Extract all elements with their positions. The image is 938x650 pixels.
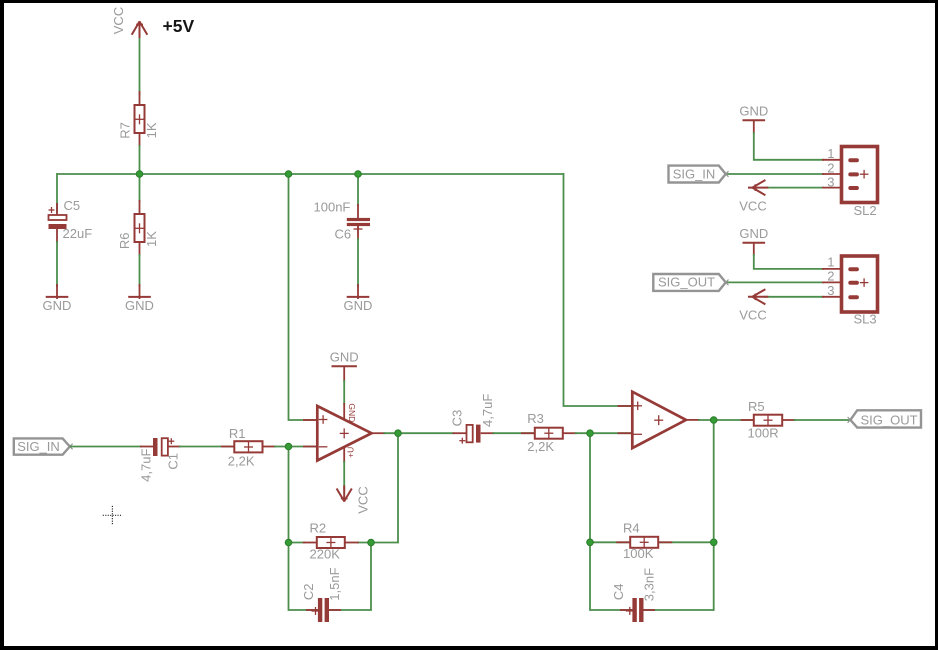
capacitor C1 4,7uF <box>139 438 181 482</box>
capacitor C2 1,5nF <box>301 567 342 622</box>
wire VCC symbol to R7 <box>139 37 141 95</box>
wire R5 to SIG_OUT flag <box>794 419 851 421</box>
wire rail to R6 <box>139 174 141 202</box>
svg-text:R3: R3 <box>527 411 544 426</box>
connector SL3 <box>822 255 878 327</box>
capacitor C5 22uF <box>49 198 93 243</box>
svg-text:3,3nF: 3,3nF <box>641 568 656 601</box>
capacitor C3 4,7uF <box>449 394 495 444</box>
ground symbol above op-amp1 <box>330 349 359 382</box>
resistor R3 2,2K <box>521 411 577 454</box>
svg-text:R7: R7 <box>117 122 132 139</box>
wire SIG_IN to C1 <box>70 446 142 448</box>
wire C4 right to output vertical <box>641 420 714 610</box>
wire rail to C6 <box>357 174 359 206</box>
net flag SIG_IN (input) <box>14 438 73 454</box>
wire GND to op-amp1 power pin <box>343 380 345 405</box>
power symbol VCC (up arrow) <box>111 7 147 38</box>
resistor R7 1K <box>117 91 159 147</box>
wire rail down to op-amp1 noninverting input <box>289 173 317 420</box>
resistor R4 100K <box>616 520 672 561</box>
wire R7 to rail junction <box>139 145 141 174</box>
ground symbol at C5 <box>43 284 72 313</box>
svg-text:100K: 100K <box>623 546 654 561</box>
svg-text:R4: R4 <box>623 520 640 535</box>
wire main VCC rail <box>57 173 564 175</box>
svg-text:+U: +U <box>346 447 356 458</box>
svg-text:VCC: VCC <box>111 7 126 34</box>
wire C1 to R1 <box>179 446 236 448</box>
svg-text:C2: C2 <box>301 583 316 600</box>
wire feedback left vertical to C2 row <box>289 447 321 611</box>
wire feedback2 left vertical to C4 row <box>590 433 634 610</box>
resistor R6 1K <box>117 200 159 256</box>
wire C3 to R3 <box>493 432 536 434</box>
resistor R5 100R <box>741 399 796 441</box>
svg-text:SL3: SL3 <box>854 312 877 327</box>
wire R2 right to op-amp1 output <box>357 433 398 542</box>
wire VCC arrow to SL2 pin 3 <box>764 187 824 189</box>
power symbol VCC at SL3 (left arrow) <box>739 289 768 322</box>
junction dot feedback1 right R2 <box>368 539 375 546</box>
connector SL2 <box>822 146 878 218</box>
wire R1 to op-amp1 inverting input <box>274 446 316 448</box>
svg-text:1: 1 <box>827 255 834 270</box>
svg-text:GND: GND <box>125 298 154 313</box>
svg-text:SIG_OUT: SIG_OUT <box>658 275 715 290</box>
svg-text:C6: C6 <box>335 226 352 241</box>
ground symbol above SL2 <box>739 104 768 135</box>
ground symbol at C6 <box>344 284 373 313</box>
junction dot rail/R7 <box>136 171 143 178</box>
svg-text:+5V: +5V <box>163 16 195 36</box>
cursor crosshair <box>103 506 122 525</box>
wire C6 to GND <box>357 238 359 287</box>
power symbol VCC at SL2 (left arrow) <box>739 180 768 213</box>
resistor R1 2,2K <box>221 426 276 468</box>
svg-text:GND: GND <box>347 403 357 422</box>
svg-text:100R: 100R <box>748 425 779 440</box>
svg-text:VCC: VCC <box>355 486 370 513</box>
capacitor C4 3,3nF <box>611 568 656 622</box>
op-amp U1A <box>303 403 386 463</box>
svg-text:1,5nF: 1,5nF <box>327 567 342 600</box>
junction dot feedback2 left R4 <box>587 539 594 546</box>
svg-text:GND: GND <box>330 349 359 364</box>
wire op-amp1 power pin to VCC <box>343 461 345 490</box>
svg-text:VCC: VCC <box>739 198 766 213</box>
svg-text:C1: C1 <box>166 453 181 470</box>
wire rail down to op-amp2 noninverting input <box>564 173 632 406</box>
svg-text:SIG_IN: SIG_IN <box>17 439 60 454</box>
svg-text:GND: GND <box>739 104 768 119</box>
svg-text:GND: GND <box>344 298 373 313</box>
ground symbol at R6 <box>125 284 154 313</box>
svg-text:SL2: SL2 <box>854 203 877 218</box>
wire C5 to GND <box>56 241 58 287</box>
junction dot feedback2 right R4 <box>710 539 717 546</box>
wire GND to SL2 pin 1 <box>754 132 824 160</box>
junction dot R1/op-amp1 inverting <box>285 443 292 450</box>
svg-text:C3: C3 <box>449 410 464 427</box>
svg-text:2,2K: 2,2K <box>527 439 554 454</box>
svg-text:R6: R6 <box>117 232 132 249</box>
wire R3 to op-amp2 inverting input <box>575 432 631 434</box>
svg-text:22uF: 22uF <box>63 226 93 241</box>
svg-text:GND: GND <box>43 298 72 313</box>
ground symbol above SL3 <box>739 226 768 256</box>
svg-text:SIG_OUT: SIG_OUT <box>860 412 917 427</box>
svg-text:220K: 220K <box>310 546 341 561</box>
junction dot op-amp2 output <box>710 417 717 424</box>
wire VCC arrow to SL3 pin 3 <box>764 296 824 298</box>
junction dot feedback1 left R2 <box>285 539 292 546</box>
svg-text:100nF: 100nF <box>314 199 351 214</box>
svg-text:R1: R1 <box>229 426 246 441</box>
power symbol VCC below op-amp1 (down arrow) <box>337 486 371 514</box>
net flag SIG_OUT (output) <box>848 410 921 427</box>
net flag SIG_IN (at SL2) <box>669 166 729 183</box>
op-amp U1B <box>618 392 701 448</box>
wire SIG_IN flag to SL2 pin 2 <box>726 173 824 175</box>
junction dot op-amp1 output <box>395 430 402 437</box>
svg-text:2,2K: 2,2K <box>228 453 255 468</box>
capacitor C6 100nF <box>314 199 371 241</box>
svg-text:1K: 1K <box>144 122 159 138</box>
svg-text:VCC: VCC <box>739 308 766 323</box>
svg-text:SIG_IN: SIG_IN <box>673 166 716 181</box>
svg-text:C5: C5 <box>64 198 81 213</box>
wire rail to C5 <box>56 173 58 213</box>
svg-text:4,7uF: 4,7uF <box>480 394 495 427</box>
wire SIG_OUT flag to SL3 pin 2 <box>726 281 824 283</box>
svg-text:GND: GND <box>739 226 768 241</box>
svg-text:C4: C4 <box>611 583 626 600</box>
wire R6 to GND <box>139 254 141 287</box>
wire C2 to right vertical up to R2 <box>327 543 371 611</box>
junction dot rail/op-amp1 branch <box>285 171 292 178</box>
svg-text:1: 1 <box>827 146 834 161</box>
svg-text:3: 3 <box>827 174 834 189</box>
svg-text:1K: 1K <box>144 231 159 247</box>
wire op-amp1 output to C3 <box>384 432 455 434</box>
svg-text:R5: R5 <box>748 399 765 414</box>
svg-text:R2: R2 <box>310 521 327 536</box>
svg-text:2: 2 <box>827 269 834 284</box>
wire op-amp2 output to R5 <box>698 419 755 421</box>
wire R4 row <box>590 541 714 543</box>
wire R2 left <box>289 542 306 544</box>
svg-text:2: 2 <box>827 160 834 175</box>
svg-text:3: 3 <box>827 283 834 298</box>
resistor R2 220K <box>303 521 359 562</box>
svg-text:4,7uF: 4,7uF <box>139 449 154 482</box>
junction dot rail/C6 <box>355 171 362 178</box>
wire GND to SL3 pin 1 <box>754 254 824 269</box>
junction dot R3/op-amp2 inverting <box>587 430 594 437</box>
net flag SIG_OUT (at SL3) <box>653 274 728 291</box>
